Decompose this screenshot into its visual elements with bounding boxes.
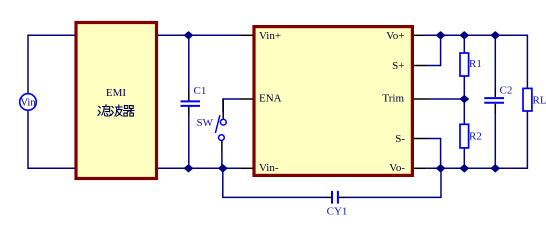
svg-text:Vo-: Vo- (389, 162, 405, 174)
wire: Vo+ top rail (425, 35, 528, 88)
svg-text:EMI: EMI (106, 87, 127, 99)
wire: R1 top lead (463, 35, 465, 53)
junction C1 bottom (185, 165, 193, 172)
pin stub Trim (414, 98, 429, 100)
wire: C2 top lead (494, 35, 496, 89)
capacitor C2 (484, 85, 512, 103)
svg-text:CY1: CY1 (327, 206, 348, 218)
resistor R2 (460, 124, 482, 148)
pin stub S+ (414, 65, 427, 67)
wire: CY1 left branch (223, 168, 326, 197)
wire: bottom rail EMI to U1 Vin- (158, 167, 241, 169)
pin stub Vo- (414, 167, 425, 169)
svg-text:R2: R2 (469, 131, 482, 143)
junction Trim (460, 96, 468, 103)
junction C1 top (185, 32, 193, 39)
resistor RL (523, 88, 546, 111)
svg-text:Vin-: Vin- (259, 162, 279, 174)
svg-text:Trim: Trim (382, 93, 404, 105)
svg-text:C2: C2 (500, 85, 513, 97)
converter module U1 (254, 27, 412, 176)
junction R1 top (460, 32, 468, 39)
pin stub Vin- (241, 167, 253, 169)
wire: R1 bottom lead (463, 76, 465, 99)
pin stub ENA (240, 98, 253, 100)
svg-text:S+: S+ (392, 60, 404, 72)
wire: CY1 right branch (345, 168, 442, 197)
wire: S- drop (425, 139, 441, 169)
svg-text:C1: C1 (194, 85, 207, 97)
svg-text:ENA: ENA (259, 93, 282, 105)
svg-text:Vin+: Vin+ (259, 30, 281, 42)
junction S- bottom (437, 165, 445, 172)
switch SW (197, 115, 227, 140)
wire: EMI out top rail to U1 Vin+ (158, 34, 242, 36)
junction C2 bottom (491, 165, 499, 172)
junction S+ top (437, 32, 445, 39)
source Vin (20, 94, 37, 111)
char 波 (111, 106, 114, 115)
wire: Vo- bottom rail (425, 111, 527, 168)
EMI filter Chinese label 滤波器 (drawn) (98, 105, 134, 117)
wire: switch bottom lead (221, 141, 223, 153)
resistor R1 (460, 53, 482, 76)
pin stub Vo+ (414, 34, 425, 36)
junction switch bottom (219, 165, 227, 172)
wire: C1 leads (188, 35, 190, 91)
junction R2 bottom (460, 165, 468, 172)
capacitor C1 (181, 85, 207, 106)
pin stub S- (414, 138, 425, 140)
svg-text:R1: R1 (469, 58, 482, 70)
capacitor CY1 (327, 191, 348, 218)
CY1 left stub (326, 196, 331, 198)
wire: S+ riser (427, 35, 441, 65)
char 滤 (98, 106, 101, 115)
svg-text:Vo+: Vo+ (386, 30, 404, 42)
wire: ENA to switch (223, 99, 240, 112)
junction C2 top (491, 32, 499, 39)
wire: Vin loop top (28, 35, 75, 93)
wire: Trim to divider (429, 98, 464, 100)
char 器 (123, 106, 134, 117)
svg-text:S-: S- (395, 133, 405, 145)
wire: C2 bottom lead (494, 104, 496, 113)
svg-text:Vin: Vin (20, 97, 36, 108)
wire: Vin loop bottom (28, 111, 75, 169)
EMI filter box (76, 23, 157, 179)
svg-text:RL: RL (533, 95, 546, 107)
wire: R2 top lead (463, 99, 465, 124)
wire: switch top lead (222, 99, 224, 119)
pin stub Vin+ (242, 34, 253, 36)
CY1 right stub (339, 196, 345, 198)
wire: R2 bottom lead (463, 148, 465, 168)
svg-text:SW: SW (197, 117, 214, 129)
